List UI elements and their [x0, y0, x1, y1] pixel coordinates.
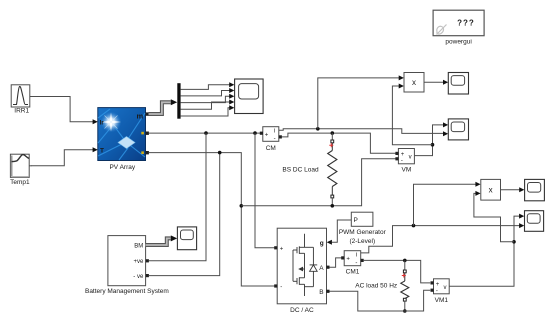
svg-text:g: g — [320, 240, 324, 247]
svg-text:+: + — [436, 282, 440, 288]
resistor BS DC Load — [328, 133, 337, 206]
inverter block DC/AC — [274, 228, 329, 304]
svg-text:T: T — [100, 147, 104, 154]
svg-text:P: P — [354, 217, 358, 224]
svg-text:BS DC Load: BS DC Load — [282, 167, 319, 174]
transistor pair and diode inside DC/AC — [293, 234, 317, 296]
wire AC v branch to Product2 bottom input — [474, 191, 514, 242]
wire DC/AC B output to AC return and VM1 - — [330, 290, 431, 311]
svg-text:i: i — [356, 253, 357, 259]
svg-text:-: - — [274, 136, 276, 142]
svg-text:B: B — [319, 289, 323, 296]
powergui block — [433, 10, 484, 36]
wire AC i branch to Product2 top input — [414, 182, 481, 226]
junction i riser — [316, 127, 320, 131]
svg-text:+: + — [265, 133, 269, 139]
svg-text:+ve: +ve — [133, 259, 144, 265]
svg-text:v: v — [409, 155, 412, 161]
wire CM1 i output to Scope5 bottom — [361, 223, 525, 253]
scope BM1 — [177, 227, 196, 250]
junction inverter tap on DC+ — [253, 131, 257, 135]
svg-text:CM: CM — [266, 145, 276, 152]
svg-text:VM1: VM1 — [435, 297, 449, 304]
svg-text:PWM Generator: PWM Generator — [339, 229, 387, 236]
resistor AC load — [401, 260, 409, 311]
voltage measurement VM — [395, 149, 414, 165]
wire battery -ve riser — [149, 153, 220, 276]
wire VM1 v output riser — [449, 214, 524, 287]
junction AC v branch — [512, 240, 516, 244]
junction battery tap on DC+ — [204, 131, 208, 135]
svg-text:PV Array: PV Array — [109, 164, 135, 171]
battery management system block — [108, 236, 149, 286]
wire CM i output signal line — [279, 129, 448, 136]
port stub PV m — [146, 112, 149, 115]
svg-text:Temp1: Temp1 — [10, 179, 30, 186]
wire demux out 2 to Scope1 in 2 — [181, 88, 235, 96]
wire IRR1 to PV Ir input — [32, 97, 98, 125]
voltage measurement VM1 — [431, 279, 450, 295]
svg-text:- ve: - ve — [133, 274, 144, 280]
svg-text:v: v — [444, 285, 447, 291]
wire DC- to BS load bottom and VM - — [241, 159, 395, 206]
scope Scope3 — [448, 119, 468, 140]
svg-text:AC load 50 Hz: AC load 50 Hz — [355, 283, 397, 290]
svg-text:???: ??? — [457, 19, 475, 28]
wire P to DC/AC g input — [327, 220, 352, 245]
current measurement CM — [260, 127, 282, 143]
svg-text:DC / AC: DC / AC — [290, 307, 314, 314]
port stub PV + — [146, 132, 149, 135]
bus wire PV m to demux — [149, 99, 178, 114]
wire demux out 4 to Scope1 in 4 — [181, 100, 235, 110]
wire DC/AC A output to CM1 — [330, 258, 342, 267]
wire demux out 1 to Scope1 in 1 — [181, 82, 235, 89]
svg-text:Ir: Ir — [100, 120, 105, 127]
current measurement CM1 — [341, 251, 364, 267]
wire demux out 5 to Scope1 in 5 — [181, 105, 235, 116]
svg-text:x: x — [412, 78, 416, 87]
svg-text:x: x — [489, 185, 493, 194]
source block Temp1 — [10, 154, 31, 177]
wire battery +ve riser — [149, 133, 206, 261]
svg-text:-: - — [401, 158, 403, 164]
demux — [177, 83, 180, 119]
svg-text:CM1: CM1 — [346, 268, 360, 275]
bus wire BM to scope BM1 — [146, 235, 178, 245]
svg-text:i: i — [274, 129, 275, 135]
svg-text:-: - — [280, 285, 282, 291]
svg-text:+: + — [280, 246, 284, 252]
wire CM1 - output to AC load top — [364, 260, 431, 283]
svg-text:A: A — [319, 265, 324, 272]
svg-text:m: m — [137, 111, 144, 120]
svg-text:+: + — [401, 152, 405, 158]
svg-text:IRR1: IRR1 — [14, 107, 29, 114]
scope Scope2 — [448, 73, 468, 95]
svg-text:-: - — [436, 289, 438, 295]
source block IRR1 — [11, 85, 33, 107]
wire i riser to Product1 top input — [318, 75, 404, 128]
PWM generator block P — [351, 212, 373, 226]
product block Product2 — [481, 179, 501, 200]
wire CM - output to DC+ bus continued — [282, 133, 396, 153]
svg-text:BM: BM — [134, 243, 143, 249]
svg-text:VM: VM — [402, 166, 412, 173]
wire demux out 3 to Scope1 in 3 — [181, 94, 235, 103]
wire Product2 to Scope4 — [501, 187, 525, 192]
wire Temp1 to PV T input — [31, 147, 98, 166]
junction BS load bottom — [331, 204, 335, 208]
svg-text:powergui: powergui — [445, 39, 471, 46]
wire v branch to Product1 bottom input — [392, 84, 432, 145]
node DC+ bus: wire PV + to CM input — [149, 132, 262, 134]
scope Scope5 — [525, 211, 544, 232]
junction AC load bottom — [403, 309, 407, 313]
junction AC load top — [403, 259, 407, 263]
port stub PV - — [146, 151, 149, 154]
scope Scope4 — [525, 179, 545, 200]
scope Scope1 — [235, 79, 264, 114]
svg-text:+: + — [346, 257, 350, 263]
junction battery -ve on DC- — [218, 151, 222, 155]
junction DC- load branch — [240, 204, 244, 208]
wire DC+ down to DC/AC + input — [255, 133, 275, 248]
svg-text:(2-Level): (2-Level) — [349, 238, 375, 245]
node DC- bus: wire PV - rightwards and down — [149, 153, 275, 286]
wire VM v output to junction — [414, 122, 448, 155]
product block Product1 — [404, 73, 424, 93]
junction AC i branch — [412, 224, 416, 228]
svg-text:Battery Management System: Battery Management System — [85, 288, 169, 295]
junction v branch — [431, 143, 435, 147]
svg-text:-: - — [355, 260, 357, 266]
PV Array block — [98, 108, 146, 161]
junction BS load top — [331, 131, 335, 135]
wire Product1 to Scope2 — [424, 80, 448, 85]
